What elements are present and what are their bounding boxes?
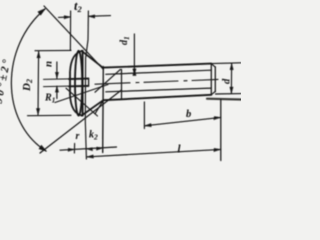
chamfer bottom diagonal (211, 91, 215, 94)
head-shank junction line (102, 67, 105, 153)
thread inner top line (106, 70, 212, 74)
d dimension extensions (212, 62, 242, 65)
screw head dome arc R1 (70, 51, 83, 116)
cone angle extension upper (44, 6, 104, 70)
smudge band (207, 98, 241, 101)
arc arrowhead top (38, 9, 46, 16)
fillet leader segment (95, 100, 103, 114)
svg-text:d: d (222, 78, 233, 84)
arc arrowhead bottom (39, 145, 47, 151)
b extension left (143, 102, 145, 129)
head face plane line (82, 51, 84, 116)
b and l extension right (220, 100, 222, 161)
chamfer top diagonal (211, 64, 215, 67)
n dimension line upper (56, 62, 58, 78)
svg-text:n: n (43, 61, 55, 67)
D2 extension bottom (28, 114, 72, 116)
r extension tick (73, 144, 75, 154)
D2 extension top (35, 49, 71, 51)
cone angle extension lower (40, 90, 122, 153)
thread runout diagonal (95, 69, 121, 92)
centerline axis (95, 79, 218, 84)
svg-text:b: b (186, 109, 191, 120)
d1 dimension (133, 34, 135, 75)
cone bottom face (82, 100, 104, 115)
thread inner bottom line (106, 88, 212, 92)
b dimension line (144, 117, 220, 125)
construction diagonal lower (66, 88, 98, 116)
shank outer top line (103, 64, 211, 68)
cone top face (82, 51, 104, 68)
t2 extension right / slot bottom / k2-l extension (85, 11, 88, 159)
head face ellipse D2 circle (75, 51, 82, 116)
r k2 dimension line (60, 147, 117, 150)
chamfer circle line (210, 64, 212, 95)
slot bottom line (88, 78, 90, 86)
l dimension line (87, 149, 221, 157)
slot bottom wall (44, 85, 89, 88)
slot walls thick part (69, 78, 88, 81)
D2 dimension line (37, 52, 40, 115)
angle dimension arc 90deg (11, 9, 46, 151)
shank outer bottom line (103, 95, 211, 100)
R1 leader (55, 85, 108, 103)
t2 dimension arrows (59, 16, 71, 19)
slot top wall (44, 78, 89, 81)
n dimension line lower (56, 86, 58, 98)
t2 extension left (69, 11, 71, 50)
svg-text:r: r (76, 131, 80, 142)
d dimension line (230, 63, 232, 93)
end face line (214, 67, 216, 92)
thread start line (121, 70, 123, 99)
